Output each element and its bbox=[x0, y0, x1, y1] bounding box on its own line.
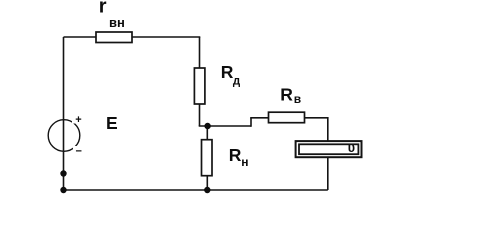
svg-text:в: в bbox=[294, 92, 301, 106]
resistor Rn (vertical box) bbox=[202, 140, 213, 176]
svg-text:E: E bbox=[106, 113, 118, 133]
voltmeter inner display bbox=[299, 144, 358, 154]
svg-text:R: R bbox=[280, 85, 293, 105]
voltmeter V (outer case) bbox=[296, 141, 362, 157]
resistor Rv (horizontal box) bbox=[269, 112, 305, 123]
svg-text:υ: υ bbox=[348, 141, 355, 155]
wire horizontal into Rv left terminal bbox=[250, 117, 268, 119]
svg-text:+: + bbox=[75, 114, 81, 126]
svg-text:R: R bbox=[221, 62, 234, 82]
wire bottom rail bbox=[64, 189, 328, 191]
svg-text:н: н bbox=[241, 155, 248, 169]
voltage source E (circle) bbox=[48, 115, 83, 155]
wire vertical from Rv branch down to voltmeter top bbox=[327, 117, 329, 141]
resistor r_vn (internal resistance, horizontal box) bbox=[96, 32, 132, 43]
svg-text:−: − bbox=[76, 146, 82, 158]
wire vertical from voltmeter bottom to bottom rail bbox=[327, 157, 329, 190]
wire top horizontal from r_vn to right branch bbox=[132, 36, 200, 38]
resistor Rd (vertical box) bbox=[194, 68, 205, 104]
node dot bottom-left junction bbox=[60, 187, 66, 193]
wire top-left horizontal from left branch to resistor r_vn bbox=[64, 36, 97, 38]
wire left vertical branch (source branch) bbox=[63, 37, 65, 190]
wire from Rn bottom to bottom rail bbox=[206, 176, 208, 190]
svg-text:R: R bbox=[229, 145, 242, 165]
svg-text:вн: вн bbox=[109, 15, 125, 30]
svg-text:д: д bbox=[233, 75, 241, 87]
wire from Rd bottom to node A bbox=[199, 104, 201, 126]
wire horizontal from Rv right terminal bbox=[304, 117, 327, 119]
svg-text:r: r bbox=[99, 0, 107, 18]
wire node A horizontal toward Rv bbox=[199, 125, 251, 127]
node dot Rn bottom junction bbox=[204, 187, 210, 193]
node A junction dot (Rd/Rn/Rv junction) bbox=[204, 123, 210, 129]
node dot source negative terminal bbox=[60, 170, 66, 176]
wire vertical jog up before Rv bbox=[250, 118, 252, 127]
wire vertical from node A down to Rn bbox=[206, 126, 208, 140]
wire right vertical from top wire to Rd bbox=[199, 37, 201, 68]
